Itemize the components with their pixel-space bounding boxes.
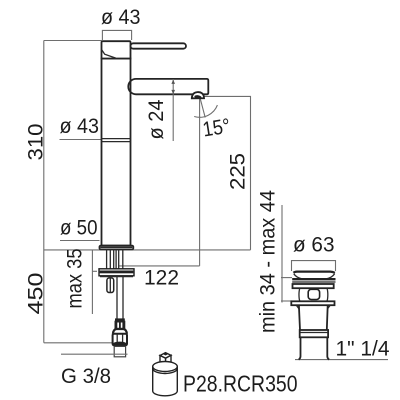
svg-text:225: 225 (227, 153, 250, 190)
svg-text:min 34 - max 44: min 34 - max 44 (257, 190, 280, 333)
svg-text:1" 1/4: 1" 1/4 (336, 338, 390, 361)
svg-text:max 35: max 35 (64, 249, 87, 309)
svg-text:ø 50: ø 50 (60, 217, 98, 240)
svg-text:P28.RCR350: P28.RCR350 (183, 371, 298, 397)
svg-text:15°: 15° (201, 115, 232, 142)
svg-text:ø 24: ø 24 (145, 99, 168, 139)
svg-text:ø 63: ø 63 (293, 234, 335, 257)
svg-text:ø 43: ø 43 (101, 6, 141, 29)
svg-text:450: 450 (25, 273, 48, 315)
svg-text:122: 122 (144, 267, 179, 290)
svg-text:ø 43: ø 43 (60, 115, 100, 138)
svg-text:310: 310 (25, 124, 48, 161)
svg-text:G 3/8: G 3/8 (61, 365, 111, 388)
